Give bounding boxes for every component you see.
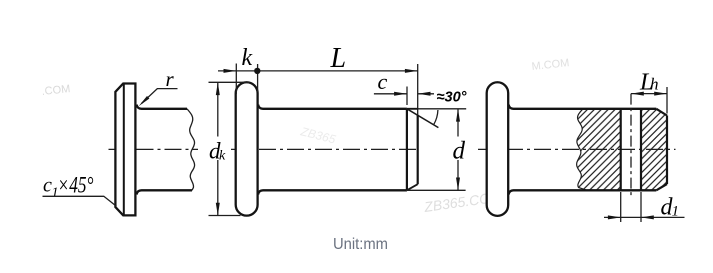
hatch region left of hole [577, 109, 621, 191]
svg-text:k: k [219, 149, 226, 164]
k extension line [235, 64, 237, 95]
c dimension line left part [374, 93, 407, 95]
svg-text:Unit:mm: Unit:mm [333, 236, 388, 253]
head outline (chamfered flat head, side profile) [115, 84, 135, 216]
dk dimension line (broken for label) [217, 82, 219, 215]
angle arc [434, 110, 438, 124]
Lh right arrowhead [654, 92, 667, 96]
head right edge extension (up) [257, 64, 259, 92]
dk arrow down [216, 203, 220, 216]
d top extension [407, 108, 418, 110]
d arrow up [456, 109, 460, 122]
Lh left arrowhead [631, 92, 644, 96]
chamfer bottom diagonal [407, 184, 418, 190]
c right arrowhead [418, 92, 431, 96]
svg-text:1: 1 [672, 204, 680, 220]
break (wavy) line [187, 109, 195, 191]
arrowhead at k left [224, 69, 237, 73]
svg-text:c: c [378, 69, 388, 94]
centerline middle view [231, 148, 420, 150]
dot separator k/L [254, 68, 260, 74]
shaft top line with fillet [509, 105, 657, 109]
end chamfer top diagonal [656, 109, 667, 116]
shaft top line with fillet [258, 105, 407, 109]
d1 left arrowhead [608, 215, 621, 219]
hole right edge [640, 109, 642, 191]
dk top extension [209, 81, 250, 83]
c dimension line right part [418, 93, 434, 95]
svg-text:r: r [166, 67, 175, 91]
break-out boundary (wavy) [577, 109, 587, 191]
head (stadium profile) [236, 82, 258, 215]
end face right edge [666, 116, 668, 185]
label c1x45 [43, 173, 94, 201]
chamfer top diagonal with extension to angle callout [407, 109, 439, 128]
head (stadium profile) [487, 82, 509, 216]
d1 left extension [620, 192, 622, 222]
d dimension line (broken for label) [457, 109, 459, 191]
d1 dimension line [604, 216, 685, 218]
dk arrow up [216, 82, 220, 95]
d arrow down [456, 178, 460, 191]
svg-text:×45°: ×45° [58, 173, 94, 198]
hole centerline (vertical) [630, 94, 632, 197]
shaft end extension (up to L dim) [417, 64, 419, 115]
c arrowhead [394, 92, 407, 96]
svg-text:k: k [242, 45, 253, 71]
hole left edge [620, 109, 622, 191]
dk bottom extension [209, 215, 241, 217]
chamfer start line [406, 109, 408, 191]
leader for c1x45 [43, 196, 117, 206]
Lh right extension line [666, 87, 668, 114]
end face line [417, 115, 419, 184]
shaft top line with fillet [137, 105, 187, 109]
shaft bottom line with fillet [509, 190, 657, 194]
d1 right arrowhead [641, 215, 654, 219]
shaft bottom line with fillet [137, 190, 192, 194]
k and L dimension line [218, 70, 418, 72]
centerline right view [478, 148, 676, 150]
svg-text:h: h [650, 75, 659, 94]
c extension line [406, 87, 408, 106]
head chamfer edge line [123, 84, 125, 216]
arrowhead of r leader [139, 96, 150, 106]
centerline left view [109, 148, 199, 150]
hatch region right of hole [641, 109, 667, 191]
arrowhead at L right [405, 69, 418, 73]
svg-text:L: L [330, 43, 347, 74]
svg-text:d: d [453, 138, 466, 165]
Lh dimension line [631, 93, 667, 95]
d bottom extension [407, 189, 466, 191]
leader for r [142, 89, 178, 104]
d1 right extension [640, 192, 642, 222]
end chamfer bottom diagonal [656, 184, 667, 190]
svg-text:≈30°: ≈30° [437, 89, 468, 106]
shaft bottom line with fillet [258, 190, 407, 194]
